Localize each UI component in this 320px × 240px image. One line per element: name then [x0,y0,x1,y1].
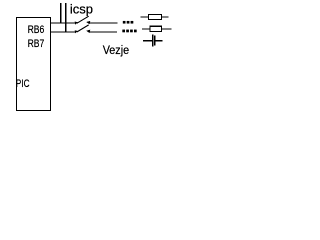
capacitor C1 plate 1 [152,34,153,46]
svg-text:icsp: icsp [70,1,93,16]
capacitor C1 plate 2 [154,35,155,45]
switch S2 lever [77,25,89,32]
switch S1 lever [77,16,89,23]
continuation dots row 1 (3 dots) [123,21,134,24]
wire: icsp line A vertical (to RB6 wire) [60,3,62,23]
continuation dots row 2 (4 dots) [122,30,136,33]
svg-text:PIC: PIC [16,78,30,90]
resistor R2 left wire [142,28,150,30]
resistor R1 body [148,14,161,19]
svg-text:RB6: RB6 [28,24,45,36]
wire: switch S2 to dots (row 2) [88,31,117,33]
resistor R1 left wire [140,16,148,18]
wire: icsp line B vertical (to RB7 wire) [65,3,67,32]
wire: RB6 pin to switch S1 left contact [51,22,76,24]
wire: switch S1 to dots (row 1) [88,22,117,24]
resistor R2 right wire [162,28,172,30]
capacitor C1 left wire [143,40,152,42]
switch S1 right contact arrow [86,21,90,24]
switch S2 right contact arrow [86,30,90,33]
resistor R2 body [150,26,162,31]
resistor R1 right wire [162,16,169,18]
svg-text:RB7: RB7 [28,38,45,50]
IC U1: PIC microcontroller box [17,18,51,111]
svg-text:Vezje: Vezje [103,44,129,57]
capacitor C1 right wire [156,40,163,42]
switch S1 left contact arrow [75,22,78,25]
switch S2 left contact arrow [75,30,78,33]
wire: RB7 pin to switch S2 left contact [51,31,76,33]
